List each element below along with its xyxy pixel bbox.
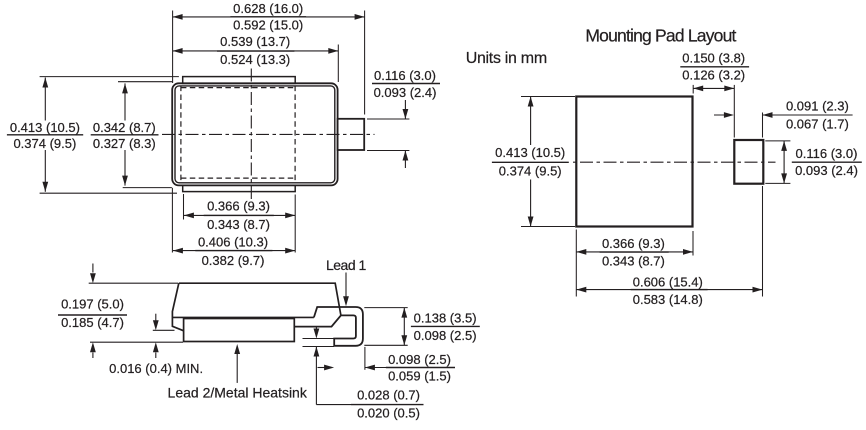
svg-text:0.116 (3.0): 0.116 (3.0) xyxy=(796,146,858,161)
svg-text:0.524 (13.3): 0.524 (13.3) xyxy=(220,52,290,67)
svg-text:Mounting Pad Layout: Mounting Pad Layout xyxy=(585,25,736,45)
svg-text:0.028 (0.7): 0.028 (0.7) xyxy=(357,388,420,403)
svg-text:0.150 (3.8): 0.150 (3.8) xyxy=(682,51,745,66)
svg-text:0.093 (2.4): 0.093 (2.4) xyxy=(374,85,437,100)
svg-text:0.327 (8.3): 0.327 (8.3) xyxy=(93,136,156,151)
svg-text:0.592 (15.0): 0.592 (15.0) xyxy=(233,18,303,33)
svg-text:0.098 (2.5): 0.098 (2.5) xyxy=(388,352,451,367)
svg-text:0.016 (0.4) MIN.: 0.016 (0.4) MIN. xyxy=(109,361,203,376)
svg-text:0.343 (8.7): 0.343 (8.7) xyxy=(602,254,665,269)
svg-text:0.185 (4.7): 0.185 (4.7) xyxy=(61,315,124,330)
svg-text:0.583 (14.8): 0.583 (14.8) xyxy=(633,292,703,307)
svg-text:0.126 (3.2): 0.126 (3.2) xyxy=(682,67,745,82)
svg-text:Lead 1: Lead 1 xyxy=(326,257,367,273)
svg-text:0.413 (10.5): 0.413 (10.5) xyxy=(495,145,565,160)
svg-text:0.098 (2.5): 0.098 (2.5) xyxy=(414,328,477,343)
svg-text:0.628 (16.0): 0.628 (16.0) xyxy=(233,1,303,16)
svg-text:0.382 (9.7): 0.382 (9.7) xyxy=(202,253,265,268)
svg-text:0.374 (9.5): 0.374 (9.5) xyxy=(499,164,562,179)
svg-text:0.138 (3.5): 0.138 (3.5) xyxy=(414,311,477,326)
svg-text:0.342 (8.7): 0.342 (8.7) xyxy=(93,120,156,135)
svg-text:0.091 (2.3): 0.091 (2.3) xyxy=(786,99,849,114)
svg-text:0.343 (8.7): 0.343 (8.7) xyxy=(207,217,270,232)
svg-text:0.116 (3.0): 0.116 (3.0) xyxy=(374,68,436,83)
svg-text:0.413 (10.5): 0.413 (10.5) xyxy=(10,120,80,135)
svg-text:Lead 2/Metal Heatsink: Lead 2/Metal Heatsink xyxy=(168,385,308,401)
svg-text:0.539 (13.7): 0.539 (13.7) xyxy=(220,34,290,49)
svg-text:0.366 (9.3): 0.366 (9.3) xyxy=(602,236,665,251)
svg-text:0.093 (2.4): 0.093 (2.4) xyxy=(795,163,858,178)
svg-text:0.067 (1.7): 0.067 (1.7) xyxy=(786,116,849,131)
svg-text:0.406 (10.3): 0.406 (10.3) xyxy=(198,234,268,249)
svg-text:0.606 (15.4): 0.606 (15.4) xyxy=(633,274,703,289)
svg-text:Units in mm: Units in mm xyxy=(466,50,547,67)
svg-text:0.059 (1.5): 0.059 (1.5) xyxy=(388,368,451,383)
svg-text:0.374 (9.5): 0.374 (9.5) xyxy=(13,136,76,151)
svg-text:0.197 (5.0): 0.197 (5.0) xyxy=(61,297,124,312)
svg-text:0.366 (9.3): 0.366 (9.3) xyxy=(207,199,270,214)
svg-text:0.020 (0.5): 0.020 (0.5) xyxy=(357,406,420,421)
